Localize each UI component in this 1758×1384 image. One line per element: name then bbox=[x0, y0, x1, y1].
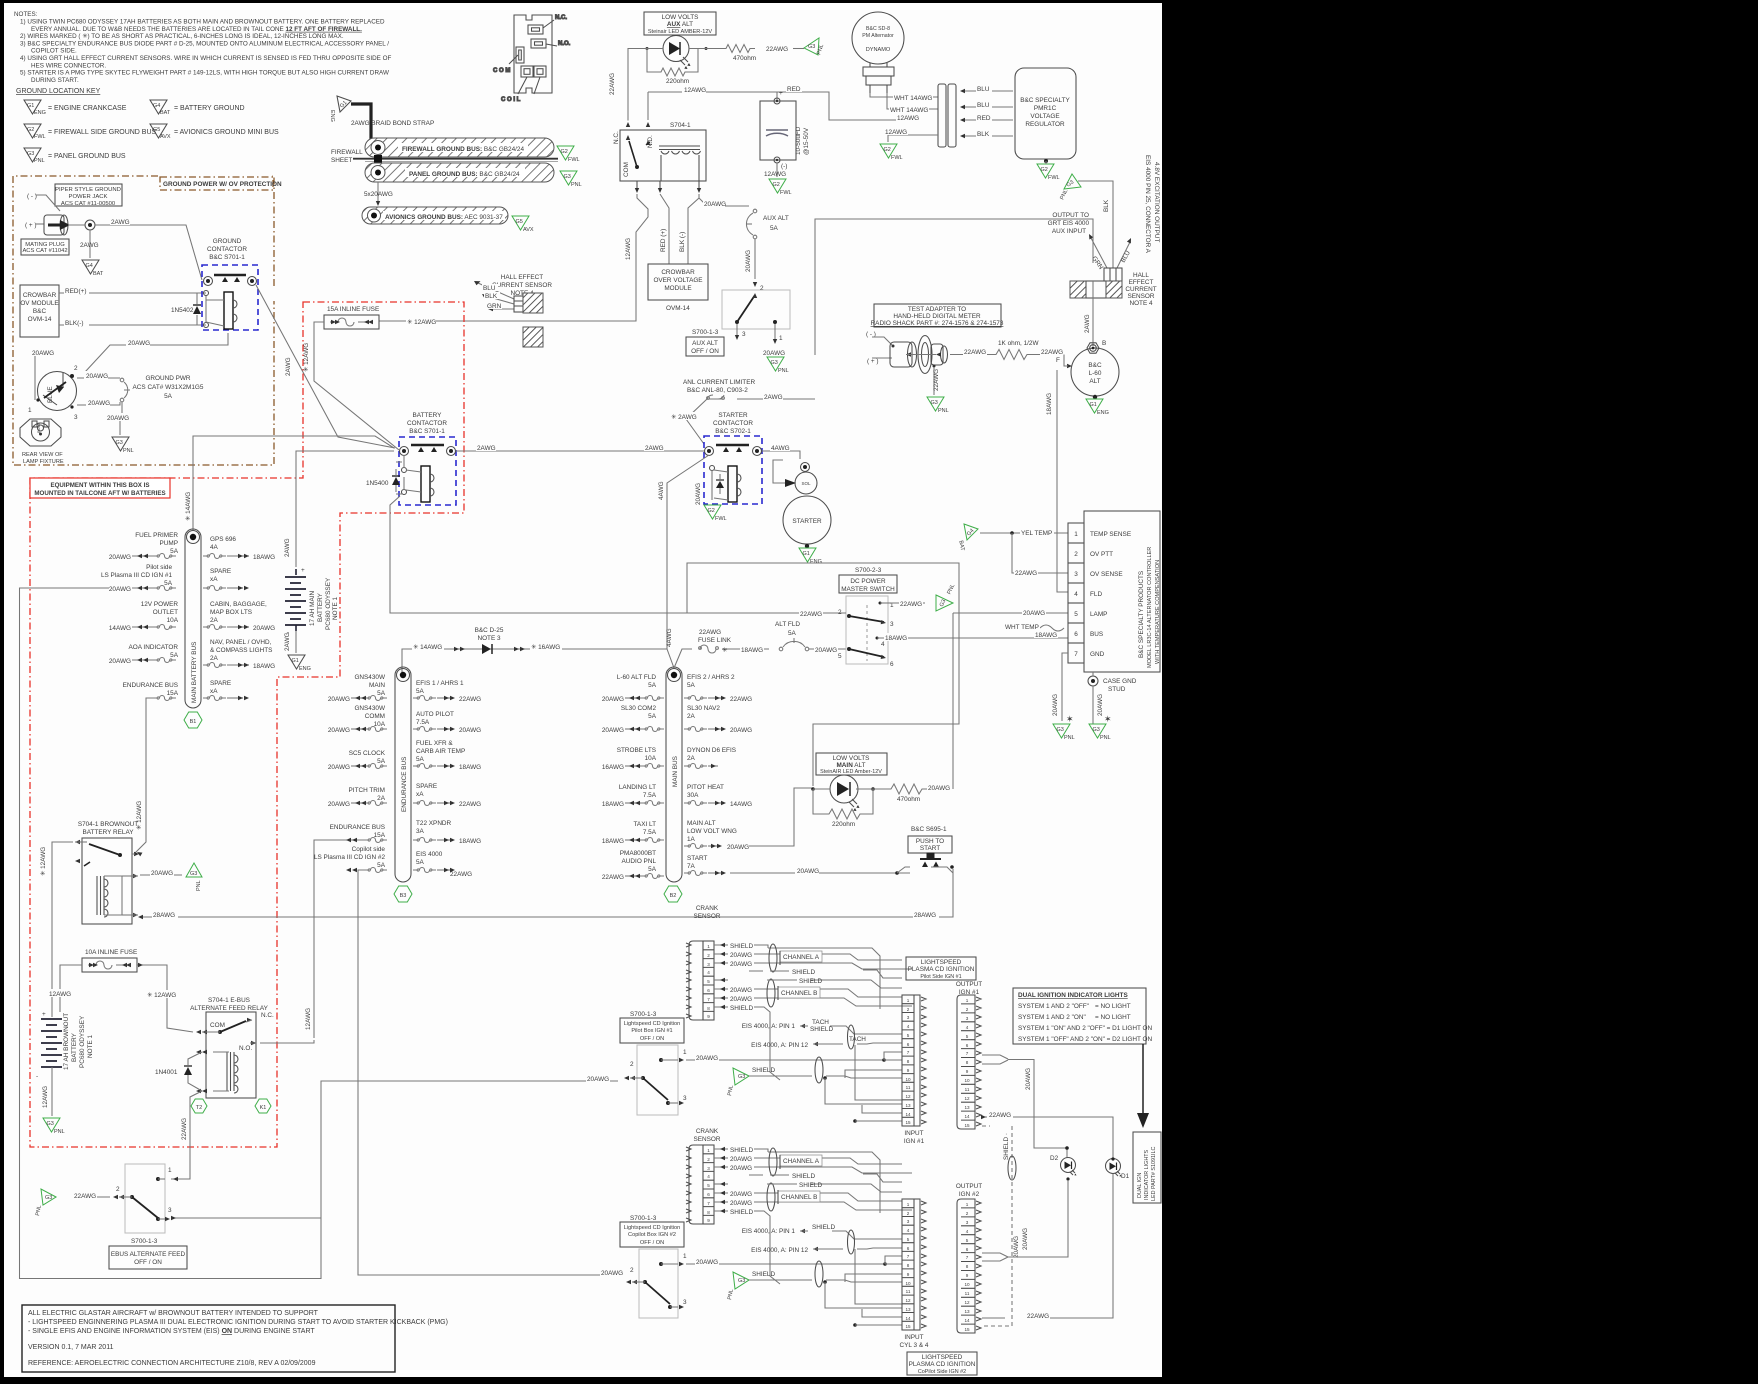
wire 4AWG starter contactor to main bus bbox=[658, 455, 709, 649]
svg-text:22AWG: 22AWG bbox=[699, 629, 721, 636]
svg-text:5x20AWG: 5x20AWG bbox=[364, 191, 393, 198]
svg-text:4.8V EXCITATION OUTPUT: 4.8V EXCITATION OUTPUT bbox=[1153, 162, 1160, 242]
svg-text:D1: D1 bbox=[1121, 1173, 1130, 1180]
svg-text:5A: 5A bbox=[788, 630, 797, 637]
svg-text:7: 7 bbox=[907, 1254, 910, 1259]
svg-text:3: 3 bbox=[707, 1166, 710, 1171]
label battery contactor bbox=[407, 412, 447, 435]
svg-text:8: 8 bbox=[707, 1006, 710, 1011]
svg-text:22AWG: 22AWG bbox=[450, 871, 472, 878]
svg-text:20AWG: 20AWG bbox=[928, 785, 950, 792]
svg-text:VERSION 0.1, 7 MAR 2011: VERSION 0.1, 7 MAR 2011 bbox=[28, 1344, 114, 1351]
svg-text:S700-1-3: S700-1-3 bbox=[692, 329, 719, 336]
svg-text:BATTERY: BATTERY bbox=[317, 592, 324, 622]
load fuel primer pump 5A bbox=[109, 532, 179, 561]
svg-text:22AWG: 22AWG bbox=[609, 73, 616, 95]
wire shield bus ign2 bbox=[749, 1261, 902, 1308]
svg-text:NOTE 1: NOTE 1 bbox=[87, 1034, 94, 1058]
svg-text:= NO LIGHT: = NO LIGHT bbox=[1095, 1014, 1131, 1021]
wire 20AWG switch to panel ground bbox=[763, 350, 785, 357]
svg-text:EIS 4000: EIS 4000 bbox=[416, 851, 443, 858]
svg-text:SHIELD: SHIELD bbox=[730, 1209, 753, 1216]
svg-text:= NO LIGHT: = NO LIGHT bbox=[1095, 1003, 1131, 1010]
svg-text:OUTPUT TO: OUTPUT TO bbox=[1052, 212, 1089, 219]
svg-text:= AVIONICS GROUND MINI BUS: = AVIONICS GROUND MINI BUS bbox=[174, 129, 279, 136]
wire 20AWG brownout relay coil to ground bbox=[140, 868, 182, 877]
svg-text:WHT 14AWG: WHT 14AWG bbox=[894, 95, 932, 102]
connector output IGN1 (15 pin) bbox=[957, 995, 981, 1129]
svg-text:B&C SPECIALTY PRODUCTS: B&C SPECIALTY PRODUCTS bbox=[1138, 571, 1145, 658]
svg-text:INPUT: INPUT bbox=[904, 1130, 923, 1137]
svg-text:+: + bbox=[779, 90, 783, 97]
svg-text:C O M: C O M bbox=[493, 68, 510, 74]
svg-text:22AWG: 22AWG bbox=[74, 1193, 96, 1200]
svg-text:13: 13 bbox=[905, 1307, 911, 1312]
svg-text:SC5 CLOCK: SC5 CLOCK bbox=[349, 750, 386, 757]
svg-text:EQUIPMENT WITHIN THIS BOX IS: EQUIPMENT WITHIN THIS BOX IS bbox=[50, 482, 149, 489]
ground G4 BAT temp sense bbox=[957, 524, 978, 552]
svg-text:FWL: FWL bbox=[891, 155, 903, 161]
wire shield crank2 pin1 bbox=[714, 1147, 880, 1213]
wire 14AWG battery contactor to main battery bus bbox=[185, 436, 394, 530]
load L-60 ALT FLD 5A bbox=[602, 674, 664, 703]
load PITOT HEAT 30A bbox=[684, 784, 752, 808]
firewall sheet line bbox=[331, 149, 558, 164]
wire 20AWG output1 pins 7/8 to D2 bbox=[982, 1055, 1069, 1157]
svg-text:20AWG: 20AWG bbox=[602, 696, 624, 703]
wire 22AWG OV sense bbox=[1012, 533, 1068, 577]
node T2 tag bbox=[191, 1099, 207, 1113]
svg-text:4: 4 bbox=[881, 641, 885, 648]
svg-text:14: 14 bbox=[964, 1318, 970, 1323]
svg-text:2AWG BRAID BOND STRAP: 2AWG BRAID BOND STRAP bbox=[351, 120, 434, 127]
svg-text:16AWG: 16AWG bbox=[602, 764, 624, 771]
contactor ground (blue dashed) bbox=[202, 265, 258, 330]
svg-text:GND: GND bbox=[1090, 651, 1105, 658]
svg-text:AUX ALT: AUX ALT bbox=[667, 21, 693, 28]
svg-text:22AWG: 22AWG bbox=[900, 601, 922, 608]
label lightspeed plasma CD ignition pilot box bbox=[906, 957, 976, 980]
svg-text:CoPilot Side IGN #2: CoPilot Side IGN #2 bbox=[918, 1369, 966, 1375]
svg-text:G3: G3 bbox=[738, 1278, 745, 1284]
alternator B&C L-60 bbox=[1056, 340, 1119, 399]
wire 22AWG ebus relay coil to switch bbox=[171, 1091, 202, 1181]
ground power jack plug bbox=[25, 193, 70, 235]
svg-text:18AWG: 18AWG bbox=[602, 838, 624, 845]
svg-text:20AWG: 20AWG bbox=[151, 870, 173, 877]
svg-text:20AWG: 20AWG bbox=[109, 554, 131, 561]
svg-text:OVER VOLTAGE: OVER VOLTAGE bbox=[653, 277, 702, 284]
label HALL EFFECT CURRENT SENSOR NOTE 4 (right) bbox=[1125, 272, 1156, 307]
svg-text:5A: 5A bbox=[164, 393, 173, 400]
wire 5x20AWG to avionics bus bbox=[364, 182, 393, 206]
svg-text:18AWG: 18AWG bbox=[459, 764, 481, 771]
svg-text:9: 9 bbox=[707, 1014, 710, 1019]
svg-text:G2: G2 bbox=[773, 182, 780, 188]
svg-text:BAT: BAT bbox=[160, 110, 171, 116]
ground G2 FWL starter contactor bbox=[704, 505, 727, 522]
svg-text:FUEL XFR &: FUEL XFR & bbox=[416, 740, 453, 747]
svg-text:SYSTEM 1 "ON" AND 2 "OFF" = D1: SYSTEM 1 "ON" AND 2 "OFF" = D1 LIGHT ON bbox=[1018, 1025, 1153, 1032]
svg-text:PITOT HEAT: PITOT HEAT bbox=[687, 784, 724, 791]
svg-text:2: 2 bbox=[707, 953, 710, 958]
svg-text:470ohm: 470ohm bbox=[733, 55, 756, 62]
label lightspeed plasma CD ignition copilot box bbox=[907, 1352, 977, 1375]
svg-text:WITH TEMPERATURE COMPENSATION: WITH TEMPERATURE COMPENSATION bbox=[1155, 560, 1161, 664]
wire 2AWG jack to battery ground bbox=[80, 230, 99, 258]
svg-text:G3: G3 bbox=[45, 1195, 52, 1201]
wire WHT 14AWG dynamo to connector (second) bbox=[887, 93, 938, 114]
svg-text:ENDURANCE BUS: ENDURANCE BUS bbox=[123, 682, 178, 689]
case gnd stud bbox=[1088, 672, 1137, 724]
wire 20AWG ign1 switch to input pins 7/8 bbox=[686, 1052, 902, 1062]
node B1 tag bbox=[184, 712, 202, 728]
wire 20AWG left branch to switch pin1 bbox=[30, 348, 54, 400]
wire shield channel B upper bbox=[714, 978, 902, 988]
svg-text:HES WIRE CONNECTOR.: HES WIRE CONNECTOR. bbox=[31, 62, 106, 69]
wire D2 cathode to output2 pins 7/8 bbox=[982, 1180, 1068, 1261]
svg-text:20AWG: 20AWG bbox=[107, 415, 129, 422]
svg-text:PNL: PNL bbox=[34, 158, 45, 164]
svg-text:RADIO SHACK PART #: 274-1576 &: RADIO SHACK PART #: 274-1576 & 274-1573 bbox=[871, 320, 1004, 327]
svg-text:15: 15 bbox=[905, 1324, 911, 1329]
svg-text:9: 9 bbox=[907, 1272, 910, 1277]
svg-text:BAT: BAT bbox=[93, 271, 104, 277]
diode 1N5400 bbox=[366, 462, 402, 494]
wire 22AWG output1 pin14 to D1 bbox=[981, 1110, 1113, 1159]
svg-text:CURRENT: CURRENT bbox=[1125, 286, 1156, 293]
wire 22AWG test adapter to panel ground bbox=[933, 367, 940, 395]
switch ground pwr rotary bbox=[28, 365, 78, 421]
svg-text:FWL: FWL bbox=[1048, 175, 1060, 181]
svg-text:4: 4 bbox=[1074, 591, 1078, 598]
label output IGN2 bbox=[956, 1183, 982, 1198]
svg-text:5A: 5A bbox=[648, 713, 657, 720]
wire TACH to EIS4000 pin1 bbox=[742, 1019, 902, 1034]
ground G3 PNL regulator gnd bbox=[1053, 724, 1075, 741]
svg-text:S704-1: S704-1 bbox=[670, 122, 691, 129]
svg-text:15A: 15A bbox=[167, 690, 179, 697]
svg-text:BLU: BLU bbox=[483, 285, 496, 292]
svg-text:N.O.: N.O. bbox=[239, 1045, 252, 1052]
svg-text:14AWG: 14AWG bbox=[730, 801, 752, 808]
svg-text:AVIONICS GROUND BUS: AEC 9031: AVIONICS GROUND BUS: AEC 9031-37 bbox=[385, 214, 503, 221]
svg-text:7.5A: 7.5A bbox=[643, 792, 657, 799]
svg-text:LOW VOLTS: LOW VOLTS bbox=[662, 14, 699, 21]
svg-text:GRT EIS 4000: GRT EIS 4000 bbox=[1048, 220, 1090, 227]
svg-text:EFFECT: EFFECT bbox=[1129, 279, 1154, 286]
svg-text:2AWG: 2AWG bbox=[285, 357, 292, 376]
svg-text:30A: 30A bbox=[687, 792, 699, 799]
svg-text:S700-2-3: S700-2-3 bbox=[855, 567, 882, 574]
svg-text:MAIN BATTERY BUS: MAIN BATTERY BUS bbox=[191, 642, 198, 703]
svg-text:IGN #2: IGN #2 bbox=[959, 1191, 980, 1198]
svg-text:4AWG: 4AWG bbox=[666, 628, 673, 647]
svg-text:xA: xA bbox=[210, 688, 218, 695]
ground G3 PNL master switch bbox=[936, 583, 956, 611]
load AOA indicator 5A bbox=[109, 644, 179, 665]
svg-text:20AWG: 20AWG bbox=[763, 350, 785, 357]
wire 20AWG contactor coil to ground pwr switch bbox=[85, 333, 228, 372]
label ground contactor bbox=[207, 238, 247, 261]
relay ebus alternate feed bbox=[196, 1012, 274, 1098]
svg-text:2: 2 bbox=[966, 1007, 969, 1012]
connector crank sensor 1 (9 pin) bbox=[686, 941, 714, 1020]
load GNS430W MAIN 5A bbox=[328, 674, 387, 703]
svg-text:9: 9 bbox=[907, 1068, 910, 1073]
ground G3 PNL case gnd bbox=[1089, 724, 1111, 741]
svg-text:2AWG: 2AWG bbox=[80, 242, 99, 249]
ground G3 PNL shield ign1 bbox=[727, 1068, 749, 1096]
svg-text:HAND-HELD DIGITAL METER: HAND-HELD DIGITAL METER bbox=[893, 313, 981, 320]
svg-text:SL30 COM2: SL30 COM2 bbox=[621, 705, 657, 712]
resistor 470ohm bbox=[706, 45, 788, 63]
svg-text:G3: G3 bbox=[116, 440, 123, 446]
label S704-1 E-BUS alternate feed relay bbox=[190, 997, 269, 1012]
svg-text:11: 11 bbox=[965, 1087, 970, 1092]
svg-text:G3: G3 bbox=[808, 44, 815, 50]
svg-text:5: 5 bbox=[838, 653, 842, 660]
svg-text:B1: B1 bbox=[190, 719, 197, 725]
svg-text:PANEL GROUND BUS: B&C GB24/24: PANEL GROUND BUS: B&C GB24/24 bbox=[409, 171, 520, 178]
svg-text:14: 14 bbox=[905, 1112, 911, 1117]
svg-text:BLU: BLU bbox=[977, 86, 990, 93]
wire 20AWG breaker to aux alt switch bbox=[745, 239, 757, 287]
svg-text:FIREWALL GROUND BUS: B&C GB24: FIREWALL GROUND BUS: B&C GB24/24 bbox=[402, 146, 524, 153]
svg-text:5: 5 bbox=[907, 1237, 910, 1242]
svg-text:PMR1C: PMR1C bbox=[1034, 105, 1057, 112]
svg-text:10: 10 bbox=[964, 1078, 970, 1083]
svg-text:CHANNEL A: CHANNEL A bbox=[783, 1158, 820, 1165]
svg-text:WHT TEMP: WHT TEMP bbox=[1005, 624, 1039, 631]
svg-text:SHIELD ·: SHIELD · bbox=[1003, 1133, 1010, 1160]
svg-text:8: 8 bbox=[907, 1059, 910, 1064]
svg-text:FWL: FWL bbox=[715, 516, 727, 522]
svg-text:ENDURANCE BUS: ENDURANCE BUS bbox=[330, 824, 385, 831]
svg-text:G2: G2 bbox=[708, 508, 715, 514]
ground G3 PNL at panel bus bbox=[560, 171, 582, 188]
svg-text:1A: 1A bbox=[687, 836, 696, 843]
svg-text:= ENGINE CRANKCASE: = ENGINE CRANKCASE bbox=[48, 105, 127, 112]
svg-text:S700-1-3: S700-1-3 bbox=[630, 1215, 657, 1222]
svg-text:NOTES:: NOTES: bbox=[14, 11, 38, 18]
svg-text:L-60: L-60 bbox=[1089, 370, 1102, 377]
svg-text:20AWG: 20AWG bbox=[727, 844, 749, 851]
svg-text:G3: G3 bbox=[1057, 727, 1064, 733]
svg-text:8: 8 bbox=[966, 1060, 969, 1065]
svg-text:20AWG: 20AWG bbox=[730, 1191, 752, 1198]
svg-text:18AWG: 18AWG bbox=[1035, 632, 1057, 639]
label S700-2-3 DC POWER MASTER SWITCH bbox=[839, 567, 897, 593]
ground G1 ENG at braid strap bbox=[329, 96, 351, 122]
svg-text:1N5402: 1N5402 bbox=[171, 307, 194, 314]
svg-text:MODULE: MODULE bbox=[664, 285, 691, 292]
svg-text:5: 5 bbox=[907, 1033, 910, 1038]
svg-text:G5: G5 bbox=[153, 127, 160, 133]
svg-text:1: 1 bbox=[28, 407, 32, 414]
svg-text:MODEL LR3C-14 ALTERNATOR CONTR: MODEL LR3C-14 ALTERNATOR CONTROLLER bbox=[1147, 547, 1153, 668]
svg-text:8: 8 bbox=[907, 1263, 910, 1268]
ground G3 PNL shield ign2 bbox=[727, 1272, 749, 1300]
svg-text:( - ): ( - ) bbox=[27, 193, 37, 200]
ground location key bbox=[16, 88, 279, 164]
svg-text:5A: 5A bbox=[170, 652, 179, 659]
label LOW VOLTS MAIN ALT bbox=[816, 753, 887, 775]
svg-text:1: 1 bbox=[966, 1202, 969, 1207]
svg-text:22AWG: 22AWG bbox=[181, 1118, 188, 1140]
svg-text:20AWG: 20AWG bbox=[253, 625, 275, 632]
svg-text:12AWG: 12AWG bbox=[885, 129, 907, 136]
load GNS430W COMM 10A bbox=[328, 705, 387, 734]
svg-text:20AWG: 20AWG bbox=[730, 1165, 752, 1172]
svg-text:VOLTAGE: VOLTAGE bbox=[1030, 113, 1059, 120]
svg-text:10A INLINE FUSE: 10A INLINE FUSE bbox=[85, 949, 137, 956]
svg-text:EIS 4000, A: PIN 12: EIS 4000, A: PIN 12 bbox=[751, 1042, 808, 1049]
svg-text:20AWG: 20AWG bbox=[328, 696, 350, 703]
wire shield channel A crank2 bbox=[749, 1173, 902, 1182]
svg-text:S704-1 BROWNOUT: S704-1 BROWNOUT bbox=[78, 821, 138, 828]
svg-text:ANL CURRENT LIMITER: ANL CURRENT LIMITER bbox=[683, 379, 755, 386]
svg-text:PNL: PNL bbox=[123, 448, 134, 454]
svg-text:1K ohm, 1/2W: 1K ohm, 1/2W bbox=[998, 340, 1039, 347]
label crank sensor 1 bbox=[694, 905, 721, 920]
svg-text:9: 9 bbox=[966, 1069, 969, 1074]
svg-text:GNS430W: GNS430W bbox=[354, 674, 386, 681]
switch DC power master S700-2-3 bbox=[838, 596, 894, 668]
svg-text:LOW VOLT WNG: LOW VOLT WNG bbox=[687, 828, 737, 835]
dynamo B&C SD-8 PM alternator bbox=[852, 12, 904, 93]
svg-text:SHIELD: SHIELD bbox=[799, 1182, 822, 1189]
svg-text:4: 4 bbox=[966, 1229, 969, 1234]
push to start button bbox=[897, 836, 954, 873]
ground G3 PNL ground pwr bbox=[112, 437, 134, 454]
svg-text:12AWG: 12AWG bbox=[305, 1008, 312, 1030]
star marks on ground wires bbox=[1066, 714, 1112, 724]
wire 12AWG fuse to battery contactor bbox=[303, 322, 399, 450]
svg-text:SHIELD: SHIELD bbox=[730, 1005, 753, 1012]
svg-text:470ohm: 470ohm bbox=[897, 796, 920, 803]
connector input CYL 3 & 4 (15 pin) bbox=[900, 1199, 929, 1349]
load LS Plasma III CD IGN #2 copilot bbox=[314, 846, 387, 947]
arrow dual ignition to LED label bbox=[1137, 1044, 1149, 1128]
svg-text:22AWG: 22AWG bbox=[1041, 349, 1063, 356]
wire 20AWG ign2 switch to input pins 7/8 bbox=[686, 1256, 902, 1266]
svg-text:G3: G3 bbox=[931, 400, 938, 406]
wire 12AWG 10A fuse to battery positive bbox=[48, 965, 82, 1012]
svg-text:20AWG: 20AWG bbox=[328, 727, 350, 734]
svg-text:AVX: AVX bbox=[523, 227, 534, 233]
label ground pwr bbox=[133, 375, 204, 400]
wire WHT 14AWG dynamo to connector (top) bbox=[870, 93, 938, 102]
wire shield channel A bbox=[749, 969, 902, 978]
svg-text:B3: B3 bbox=[400, 893, 407, 899]
svg-text:DYNON D6 EFIS: DYNON D6 EFIS bbox=[687, 747, 736, 754]
wire BLU hall sensor output bbox=[1117, 237, 1133, 268]
svg-text:PUSH TO: PUSH TO bbox=[916, 838, 944, 845]
svg-text:✳ 12AWG: ✳ 12AWG bbox=[407, 319, 436, 326]
svg-text:CHANNEL B: CHANNEL B bbox=[781, 990, 817, 997]
svg-text:✳ 2AWG: ✳ 2AWG bbox=[671, 414, 697, 421]
load MAIN ALT LOW VOLT WNG 1A bbox=[684, 820, 749, 851]
wire shield output1 pin15 dashed bbox=[982, 1126, 1020, 1326]
svg-text:DURING START.: DURING START. bbox=[31, 77, 79, 84]
wire 2AWG battery contactor to starter contactor bbox=[456, 444, 704, 452]
wire channel A crank2 bbox=[714, 1148, 912, 1176]
svg-text:TAXI LT: TAXI LT bbox=[634, 821, 657, 828]
svg-text:3: 3 bbox=[707, 962, 710, 967]
LOW VOLTS AUX ALT label box bbox=[644, 12, 716, 35]
svg-text:BULB: BULB bbox=[36, 422, 41, 433]
svg-text:BATTERY: BATTERY bbox=[71, 1032, 78, 1062]
svg-text:AUTO PILOT: AUTO PILOT bbox=[416, 711, 454, 718]
svg-text:-: - bbox=[36, 1073, 38, 1080]
svg-text:EIS 4000, A: PIN 12: EIS 4000, A: PIN 12 bbox=[751, 1247, 808, 1254]
load spare lower B1 bbox=[203, 680, 249, 701]
svg-text:2A: 2A bbox=[687, 755, 696, 762]
svg-text:20AWG: 20AWG bbox=[730, 1200, 752, 1207]
svg-text:ALTERNATE FEED RELAY: ALTERNATE FEED RELAY bbox=[190, 1005, 269, 1012]
svg-text:28AWG: 28AWG bbox=[914, 912, 936, 919]
svg-text:PLASMA CD IGNITION: PLASMA CD IGNITION bbox=[908, 966, 975, 973]
svg-text:20AWG: 20AWG bbox=[696, 1259, 718, 1266]
svg-text:20AWG: 20AWG bbox=[730, 996, 752, 1003]
svg-text:EIS 4000, A: PIN 1: EIS 4000, A: PIN 1 bbox=[742, 1023, 796, 1030]
svg-text:5: 5 bbox=[966, 1034, 969, 1039]
svg-text:Pilot Side IGN #1: Pilot Side IGN #1 bbox=[920, 974, 961, 980]
connector pair voltage regulator bbox=[938, 84, 956, 147]
svg-text:EBUS ALTERNATE FEED: EBUS ALTERNATE FEED bbox=[111, 1251, 186, 1258]
svg-text:2: 2 bbox=[630, 1267, 634, 1274]
svg-text:SHEET: SHEET bbox=[331, 157, 352, 164]
svg-text:START: START bbox=[687, 855, 707, 862]
switch label box AUX ALT OFF / ON bbox=[686, 337, 724, 356]
svg-text:PIPER STYLE GROUND: PIPER STYLE GROUND bbox=[55, 187, 121, 193]
ground G2 FWL below capacitor bbox=[769, 179, 792, 196]
svg-text:✳ 14AWG: ✳ 14AWG bbox=[413, 644, 442, 651]
svg-text:2AWG: 2AWG bbox=[284, 538, 291, 557]
firewall ground bus B&C GB24/24 bbox=[365, 138, 554, 157]
label 12AWG fuse to relay wire bbox=[406, 317, 436, 326]
wire 12AWG relay COM to hall sensor / 15A fuse bbox=[379, 194, 648, 321]
wire RED capacitor to dynamo connector bbox=[777, 85, 920, 122]
svg-text:xA: xA bbox=[210, 576, 218, 583]
wire BLK excitation to hall connector bbox=[1078, 181, 1113, 268]
wire channel B crank2 bbox=[714, 1183, 912, 1211]
svg-text:7: 7 bbox=[1074, 651, 1078, 658]
ground G3 PNL brownout relay bbox=[186, 863, 202, 891]
wire ebus net lower run bbox=[171, 1216, 321, 1220]
svg-text:7: 7 bbox=[707, 997, 710, 1002]
wire 4AWG contactor to solenoid bbox=[762, 444, 800, 459]
resistor 220ohm main parallel bbox=[813, 789, 873, 828]
svg-text:G4: G4 bbox=[86, 263, 93, 269]
diode 1N5402 bbox=[171, 293, 201, 325]
node jack output terminal bbox=[68, 220, 95, 230]
lamp fixture rear view bbox=[20, 419, 64, 465]
svg-text:7: 7 bbox=[966, 1255, 969, 1260]
wire 12AWG relay N.O. to capacitor bbox=[646, 86, 777, 127]
svg-text:OUTPUT: OUTPUT bbox=[956, 1183, 982, 1190]
svg-text:PNL: PNL bbox=[938, 408, 949, 414]
svg-text:EFIS 2 / AHRS 2: EFIS 2 / AHRS 2 bbox=[687, 674, 735, 681]
svg-text:20AWG: 20AWG bbox=[1025, 1068, 1032, 1090]
svg-text:6: 6 bbox=[707, 988, 710, 993]
svg-text:18AWG: 18AWG bbox=[885, 635, 907, 642]
svg-text:STUD: STUD bbox=[1108, 686, 1126, 693]
svg-text:BATTERY: BATTERY bbox=[413, 412, 443, 419]
ground G1 ENG battery bbox=[288, 655, 311, 672]
svg-text:PITCH TRIM: PITCH TRIM bbox=[349, 787, 385, 794]
